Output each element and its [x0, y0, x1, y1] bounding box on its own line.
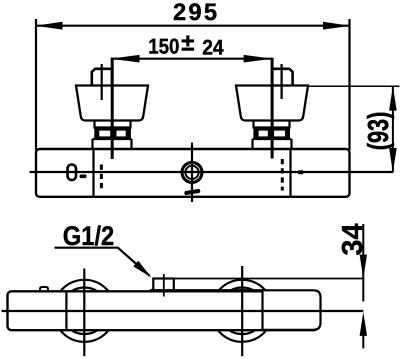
right handle top extension line to (93) — [308, 85, 400, 87]
dimension 150 arrow left — [110, 55, 139, 63]
left handle nut window right — [117, 131, 126, 137]
mixer body front view — [36, 149, 350, 197]
body left cap divider — [92, 149, 94, 197]
plan view right handle axis — [241, 266, 243, 356]
dimension 295 extension line left — [35, 19, 37, 150]
left handle knob — [76, 86, 148, 121]
svg-text:24: 24 — [202, 37, 224, 60]
right cap center dash — [298, 170, 304, 174]
G1/2 underline and leader — [55, 248, 150, 276]
left handle stem axis — [101, 64, 103, 100]
extension line left valve center — [111, 58, 114, 159]
fitting axis — [163, 274, 165, 297]
indicator dash — [80, 175, 87, 179]
plan outlet pipe — [263, 290, 321, 330]
svg-text:150: 150 — [148, 35, 179, 59]
body front center line — [30, 171, 393, 173]
dimension (93) arrow top — [389, 86, 397, 111]
plan left handle inner circle — [61, 288, 108, 335]
plan view left handle axis — [83, 269, 85, 357]
dimension 34 extension line — [174, 278, 363, 280]
left handle nut window left — [99, 131, 110, 137]
right handle collar step — [254, 121, 290, 128]
left handle nut — [94, 128, 131, 140]
extension line right valve center — [271, 58, 274, 159]
dimension 34 line lower tail — [362, 330, 364, 348]
plan safety button — [40, 287, 48, 292]
svg-text:(93): (93) — [363, 112, 395, 151]
G1/2 fitting square — [153, 279, 174, 291]
outlet bottom tick — [184, 189, 200, 195]
plan center line — [2, 310, 364, 312]
plan mounting rail — [151, 289, 264, 291]
dimension 295 arrow right — [323, 22, 350, 30]
right handle nut window left — [259, 131, 268, 137]
left handle collar base — [93, 139, 132, 149]
dimension (93) line — [392, 86, 394, 172]
svg-text:295: 295 — [173, 0, 219, 26]
dimension 295 extension line right — [348, 19, 350, 150]
dimension 34 arrow up — [360, 312, 367, 336]
temperature indicator capsule — [68, 165, 77, 181]
G1/2 leader arrow — [133, 261, 151, 278]
plan right handle outer circle — [211, 280, 273, 342]
dimension 295 arrow left — [35, 22, 62, 30]
svg-text:34: 34 — [337, 223, 369, 255]
right valve axis dashed — [281, 159, 284, 191]
plan body interior line — [65, 291, 67, 330]
right handle stem — [272, 69, 292, 86]
outlet outer circle — [182, 162, 202, 182]
left handle collar step — [95, 121, 131, 128]
right handle nut window right — [274, 131, 285, 137]
plan body — [8, 291, 319, 330]
body right cap divider — [289, 149, 291, 197]
outlet inner circle — [185, 166, 198, 179]
left handle stem — [92, 69, 112, 86]
left valve axis dashed — [100, 165, 103, 189]
plan left handle outer circle — [53, 280, 115, 342]
right handle collar base — [253, 139, 292, 149]
dimension 150 arrow right — [244, 55, 273, 63]
svg-text:±: ± — [181, 30, 194, 57]
dimension 34 line upper — [362, 224, 364, 302]
dimension 295 line — [36, 25, 350, 27]
right handle nut — [253, 128, 290, 140]
dimension (93) arrow bottom — [389, 148, 397, 173]
plan rail left end — [150, 289, 154, 292]
right handle knob — [236, 86, 308, 121]
right handle stem axis — [281, 64, 283, 99]
outlet vertical axis — [191, 143, 193, 202]
dimension 150 line — [111, 58, 272, 60]
dimension 34 arrow down — [360, 255, 367, 279]
plan right handle inner circle — [219, 288, 266, 335]
